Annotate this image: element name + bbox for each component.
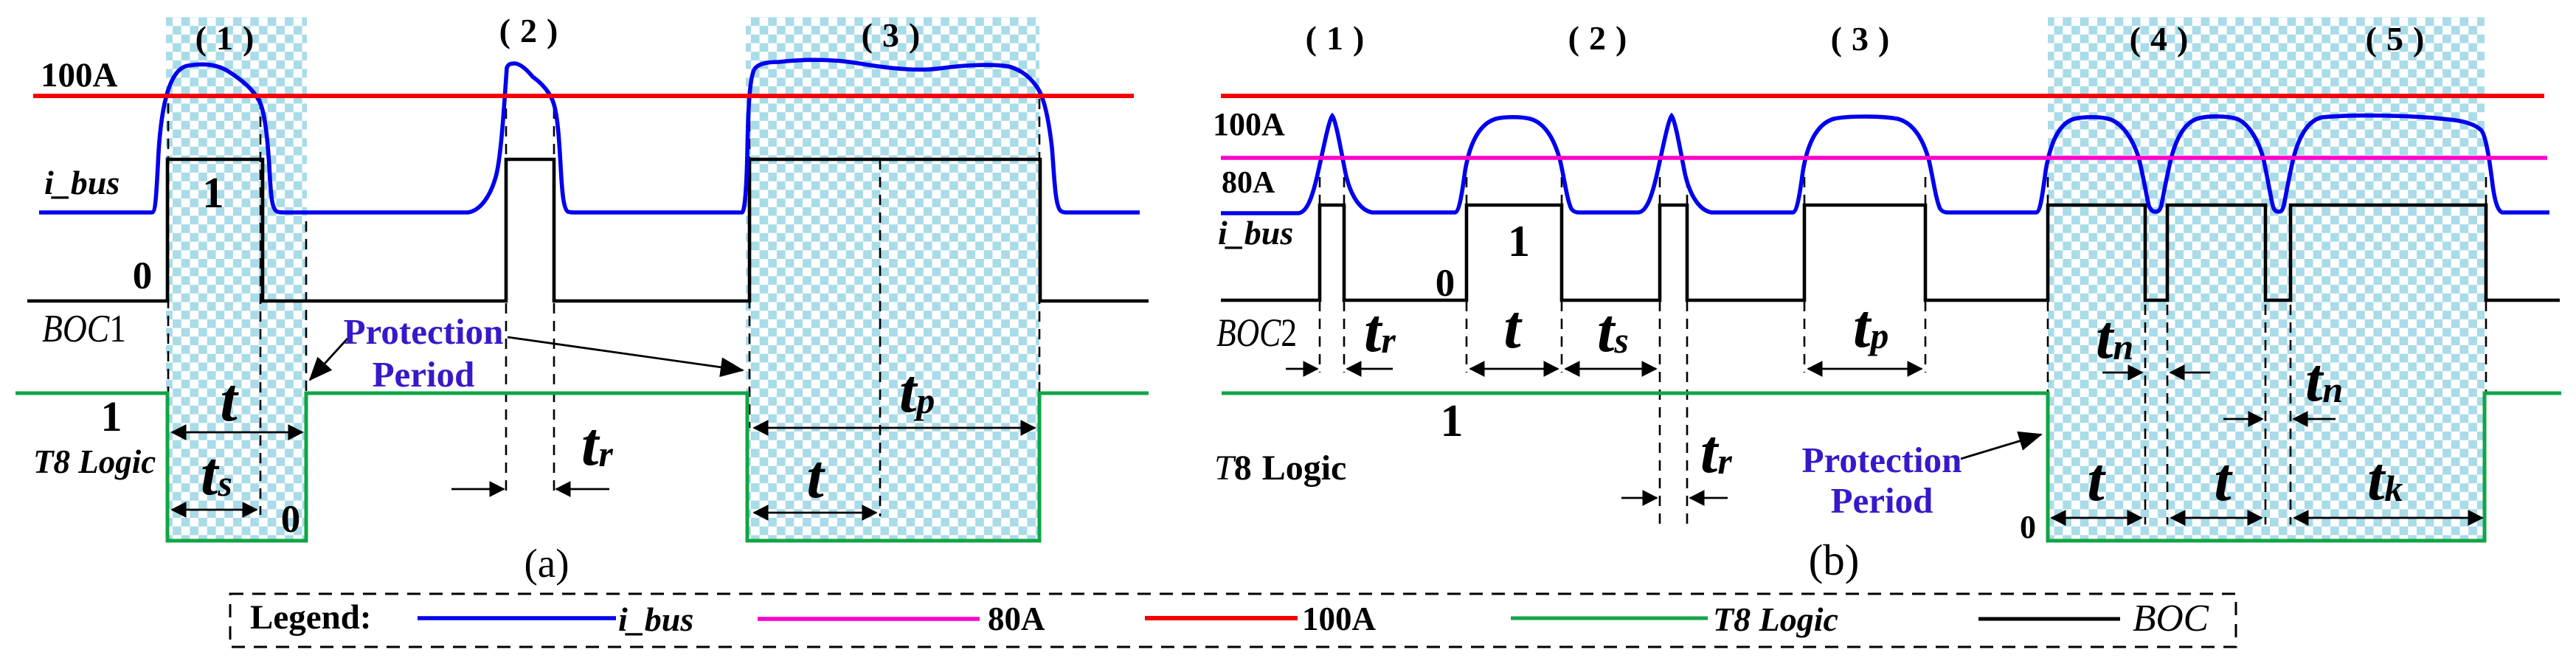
svg-text:Legend:: Legend:	[250, 598, 372, 637]
dashed guide x=1789 (b)	[1319, 177, 1321, 373]
svg-text:Period: Period	[373, 354, 475, 395]
svg-text:1: 1	[101, 392, 122, 440]
svg-text:100A: 100A	[1302, 600, 1377, 637]
svg-text:1: 1	[1441, 396, 1464, 446]
svg-text:t: t	[2214, 446, 2233, 514]
black BOC1 waveform (a)	[27, 159, 1149, 301]
black BOC2 waveform (b)	[1221, 205, 2560, 300]
svg-text:(b): (b)	[1809, 536, 1860, 584]
tr left arrow (b) region1	[1286, 368, 1318, 370]
svg-text:i_bus: i_bus	[1218, 214, 1293, 252]
dashed guide x=3370 (b)	[2485, 177, 2487, 393]
svg-text:Period: Period	[1831, 480, 1933, 521]
ts width arrow (a) region1	[172, 509, 257, 511]
legend green sample line	[1511, 617, 1708, 620]
tn right arrow (b) region4	[2170, 372, 2210, 374]
tr left arrow (b) region2-3	[1621, 497, 1657, 499]
svg-text:tr: tr	[581, 410, 613, 479]
svg-text:(1): (1)	[195, 19, 264, 57]
tr right arrow (b) region2-3	[1690, 497, 1728, 499]
svg-text:1: 1	[1508, 217, 1530, 266]
svg-text:(1): (1)	[1306, 19, 1374, 57]
tn left arrow (b) region4	[2102, 372, 2142, 374]
svg-text:t: t	[220, 366, 239, 434]
svg-text:T8Logic: T8Logic	[1214, 449, 1346, 488]
dashed guide x=2908 (b)	[2144, 305, 2147, 524]
svg-text:tr: tr	[1364, 297, 1396, 365]
svg-text:Protection: Protection	[344, 311, 504, 352]
blue i_bus waveform (a)	[39, 60, 1140, 212]
legend magenta sample line	[758, 617, 980, 621]
ts width arrow (b) region2	[1565, 368, 1656, 370]
svg-text:0: 0	[281, 498, 301, 541]
t width arrow (b) region4 first	[2052, 517, 2142, 519]
dashed guide x=686 (a)	[505, 108, 508, 491]
svg-text:0: 0	[2020, 509, 2036, 545]
t width arrow (a) region3	[754, 512, 876, 514]
svg-text:100A: 100A	[1213, 106, 1285, 142]
svg-text:(3): (3)	[862, 16, 930, 54]
dashed guide x=2250 (b)	[1659, 177, 1661, 528]
green T8 Logic waveform (a)	[15, 393, 1149, 541]
t width arrow (a) region1	[172, 432, 302, 434]
svg-text:1: 1	[202, 168, 224, 217]
dashed guide x=2776 (b)	[2047, 177, 2049, 393]
dashed guide x=1822 (b)	[1343, 177, 1346, 373]
dashed guide x=2446 (b)	[1804, 177, 1806, 373]
legend red sample line	[1145, 616, 1298, 620]
svg-text:(2): (2)	[1568, 19, 1637, 57]
svg-text:(4): (4)	[2130, 20, 2198, 58]
hatched protection region (3) of diagram (a)	[746, 17, 1039, 542]
tn right arrow (b) region5	[2293, 418, 2336, 420]
dashed guide x=2287 (b)	[1686, 177, 1689, 528]
green T8 Logic waveform (b)	[1222, 393, 2561, 541]
protection leader arrow 2 (a)	[508, 337, 743, 370]
tp width arrow (a) region3	[754, 427, 1035, 429]
dashed guide x=1193 (a)	[879, 159, 882, 516]
red 100A threshold line (b)	[1221, 94, 2544, 98]
protection leader arrow (b)	[1961, 434, 2041, 459]
tr right arrow (a) region2	[556, 488, 609, 491]
svg-text:(2): (2)	[499, 12, 568, 49]
dashed guide x=1988 (b)	[1466, 177, 1468, 373]
svg-text:t: t	[2087, 446, 2106, 514]
dashed guide x=1409 (a)	[1039, 99, 1041, 392]
tp width arrow (b) region3	[1808, 368, 1922, 370]
svg-text:tp: tp	[1853, 292, 1888, 361]
svg-text:BOC1: BOC1	[42, 308, 126, 350]
t width arrow (b) region4 second	[2171, 517, 2262, 519]
svg-text:100A: 100A	[41, 56, 118, 94]
svg-text:80A: 80A	[988, 600, 1045, 637]
svg-text:i_bus: i_bus	[618, 600, 693, 638]
svg-text:t: t	[1503, 293, 1523, 361]
magenta 80A threshold line (b)	[1221, 156, 2547, 160]
dashed guide x=2938 (b)	[2167, 305, 2169, 524]
tn left arrow (b) region5	[2223, 418, 2262, 420]
hatched protection region (4)(5) of diagram (b)	[2048, 17, 2485, 542]
tr left arrow (a) region2	[451, 488, 504, 491]
dashed guide x=353 (a)	[260, 99, 262, 515]
dashed guide x=2610 (b)	[1925, 177, 1927, 373]
svg-text:BOC: BOC	[2133, 598, 2209, 640]
dashed guide x=228 (a)	[167, 103, 170, 432]
dashed guide x=2117 (b)	[1561, 177, 1563, 373]
legend blue sample line	[418, 616, 616, 620]
t width arrow (b) region2	[1470, 368, 1558, 370]
dashed guide x=751 (a)	[553, 108, 555, 491]
blue i_bus waveform (b)	[1221, 116, 2549, 213]
dashed guide x=1016 (a)	[749, 103, 751, 428]
svg-text:T8 Logic: T8 Logic	[1713, 600, 1838, 638]
hatched protection region (1) of diagram (a)	[166, 17, 307, 542]
legend black sample line	[1978, 617, 2120, 621]
svg-text:(5): (5)	[2366, 20, 2434, 58]
svg-text:0: 0	[133, 254, 153, 297]
svg-text:80A: 80A	[1222, 166, 1275, 200]
svg-text:BOC2: BOC2	[1216, 311, 1297, 355]
svg-text:Protection: Protection	[1802, 440, 1962, 480]
svg-text:t: t	[806, 443, 825, 511]
dashed guide x=3071 (b)	[2265, 305, 2267, 524]
svg-text:T8 Logic: T8 Logic	[33, 443, 156, 480]
tr right arrow (b) region1	[1347, 368, 1393, 370]
legend dashed box	[230, 594, 2236, 647]
svg-text:0: 0	[1436, 262, 1455, 305]
dashed guide x=3105 (b)	[2290, 305, 2292, 524]
svg-text:ts: ts	[1597, 297, 1629, 365]
tk width arrow (b) region5	[2294, 517, 2482, 519]
svg-text:i_bus: i_bus	[44, 164, 120, 201]
dashed guide x=415 (a)	[305, 221, 308, 392]
svg-text:(a): (a)	[524, 541, 569, 586]
svg-text:tr: tr	[1700, 418, 1732, 486]
svg-text:(3): (3)	[1831, 20, 1900, 58]
red 100A threshold line (a)	[33, 94, 1134, 98]
protection leader arrow 1 (a)	[310, 339, 347, 380]
